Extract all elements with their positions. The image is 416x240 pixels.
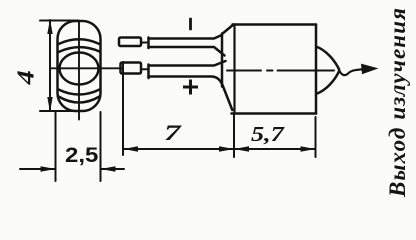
- body right edge: [315, 25, 318, 114]
- radiation arrowhead: [361, 64, 379, 75]
- body top-left chamfer: [222, 25, 234, 35]
- dimension 4: extension line bottom: [40, 110, 79, 112]
- dimension 5,7: extension line right: [315, 117, 317, 157]
- body left edge: [221, 34, 224, 87]
- horizontal centerline of lens view: [51, 67, 123, 69]
- lens top arc 2: [59, 47, 100, 52]
- arrowhead dim4 down: [47, 97, 52, 112]
- plus polarity mark: [183, 80, 198, 95]
- svg-text:Выход излучения: Выход излучения: [385, 8, 410, 198]
- dimension 7: extension line left: [122, 62, 124, 155]
- arrowhead dim4 up: [47, 19, 52, 34]
- dimension 2,5: dimension line right tail: [101, 168, 125, 170]
- dimension 2,5: dimension line left tail: [20, 168, 56, 170]
- dimension 2,5: extension line left: [55, 112, 57, 181]
- body axis centerline dash: [227, 70, 261, 72]
- anode lead break cap: [147, 38, 150, 49]
- emitting tip upper curve: [316, 47, 340, 71]
- cathode lead axis dash in break gap: [142, 68, 149, 70]
- dimension 5,7: dimension line: [234, 148, 316, 150]
- dimension 2,5: extension line right: [100, 112, 102, 181]
- cathode lead (bottom), upper line: [149, 61, 226, 66]
- cathode lead stub (bottom, axial): [121, 63, 142, 74]
- body bottom edge: [232, 112, 317, 115]
- body axis centerline dot: [267, 70, 273, 72]
- anode lead axis dash in break gap: [142, 42, 149, 44]
- dimension 4: dimension line: [49, 20, 51, 111]
- dimension 7 and 5,7: shared extension line: [233, 114, 235, 158]
- minus polarity mark (rotated): [189, 18, 192, 30]
- cathode lead break cap: [147, 65, 150, 79]
- svg-text:7: 7: [164, 121, 182, 145]
- body top edge: [233, 23, 317, 26]
- arrowhead dim5,7 right: [301, 146, 316, 151]
- anode lead (top), upper line: [149, 35, 222, 39]
- arrowhead dim2,5 left-pointing-right: [41, 166, 56, 171]
- dimension 7: dimension line: [123, 148, 234, 150]
- arrowhead dim7 left: [123, 146, 138, 151]
- lens top arc 1: [59, 39, 100, 44]
- body seal line: [233, 25, 235, 114]
- lens inner circle: [60, 53, 99, 85]
- emitting tip lower curve: [316, 70, 340, 94]
- lens bottom arc 2: [59, 97, 100, 103]
- cathode lead (bottom), lower line: [149, 77, 233, 111]
- svg-text:4: 4: [12, 70, 39, 85]
- radiation squiggle arrow shaft: [339, 69, 364, 75]
- dimension 4: extension line top: [40, 20, 79, 22]
- svg-text:5,7: 5,7: [251, 123, 285, 146]
- vertical centerline of lens view: [78, 21, 80, 120]
- lens bottom arc 1: [59, 90, 100, 95]
- arrowhead dim5,7 left: [234, 146, 249, 151]
- arrowhead dim7 right: [219, 146, 234, 151]
- body axis centerline dash 2: [278, 70, 335, 72]
- lens front view outline (stadium 2.5x4): [58, 21, 101, 111]
- anode lead (top), lower line: [149, 47, 225, 56]
- svg-text:2,5: 2,5: [65, 143, 98, 166]
- arrowhead dim2,5 right-pointing-left: [101, 166, 116, 171]
- anode lead stub (top): [119, 38, 141, 47]
